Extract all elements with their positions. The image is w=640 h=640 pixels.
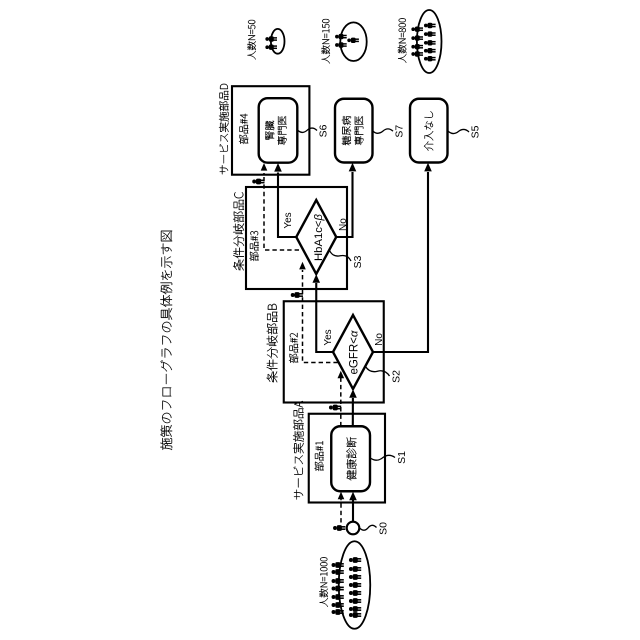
- person token between A and B: [329, 405, 341, 411]
- person token between B and C: [291, 292, 303, 298]
- wire Yes HbA1c to 腎臓専門医: [274, 163, 296, 237]
- node 腎臓専門医 (part #4): [259, 98, 330, 163]
- label 部品#1: [315, 441, 324, 471]
- end ellipse 人数N=150: [335, 22, 367, 61]
- wire solid 健康診断 to eGFR diamond: [349, 389, 357, 426]
- decision diamond eGFR<α (part #2): [333, 315, 402, 389]
- wire dashed token path to 健康診断: [338, 492, 345, 523]
- label 部品#2: [289, 333, 298, 363]
- title 施策のフローグラフの具体例を示す図: [160, 231, 172, 450]
- label 人数N=800: [398, 18, 407, 63]
- decision diamond HbA1c<β (part #3): [296, 200, 364, 274]
- label Yes (eGFR): [323, 329, 334, 345]
- label 部品#3: [250, 231, 259, 261]
- label No (eGFR): [374, 333, 385, 346]
- label 人数N=1000: [319, 557, 328, 607]
- node 糖尿病専門医: [335, 99, 405, 163]
- label 人数N=150: [321, 19, 330, 63]
- component box サービス実施部品A: [293, 401, 385, 503]
- end ellipse 人数N=50: [265, 29, 284, 54]
- wire dashed HbA1c to 腎臓専門医: [261, 163, 299, 250]
- end ellipse 人数N=800: [411, 10, 441, 73]
- svg-text:S2: S2: [390, 370, 402, 383]
- person token between C and D: [252, 179, 264, 185]
- node 介入なし: [410, 99, 482, 163]
- start population ellipse 人数N=1000: [332, 541, 371, 629]
- svg-text:Yes: Yes: [283, 212, 294, 228]
- label No (HbA1c): [338, 218, 349, 231]
- wire No HbA1c to 糖尿病専門医: [336, 163, 356, 237]
- wire dashed eGFR to HbA1c: [299, 262, 338, 363]
- wire dashed 健康診断 to eGFR: [338, 371, 345, 427]
- component box 条件分岐部品C: [233, 187, 347, 289]
- component box 条件分岐部品B: [267, 301, 384, 402]
- svg-text:S5: S5: [470, 125, 482, 138]
- svg-text:Yes: Yes: [323, 329, 334, 345]
- wire solid S0 to 健康診断: [349, 492, 357, 522]
- svg-text:S3: S3: [352, 255, 364, 268]
- label 人数N=50: [247, 20, 256, 60]
- svg-text:S0: S0: [377, 522, 389, 535]
- svg-text:No: No: [374, 333, 385, 346]
- svg-text:S7: S7: [393, 125, 405, 138]
- svg-text:HbA1c<β: HbA1c<β: [313, 213, 325, 261]
- svg-text:No: No: [338, 218, 349, 231]
- wire Yes eGFR to HbA1c: [312, 274, 333, 352]
- node 健康診断 (part #1): [331, 426, 408, 491]
- node S0 start circle: [347, 522, 390, 535]
- svg-text:S6: S6: [318, 124, 330, 137]
- svg-text:eGFR<α: eGFR<α: [348, 330, 360, 374]
- label Yes (HbA1c): [283, 212, 294, 228]
- component box サービス実施部品D: [219, 84, 309, 175]
- person token at S0: [333, 525, 345, 531]
- wire No eGFR to 介入なし: [373, 163, 432, 352]
- svg-text:S1: S1: [396, 451, 408, 464]
- label 部品#4: [239, 114, 248, 144]
